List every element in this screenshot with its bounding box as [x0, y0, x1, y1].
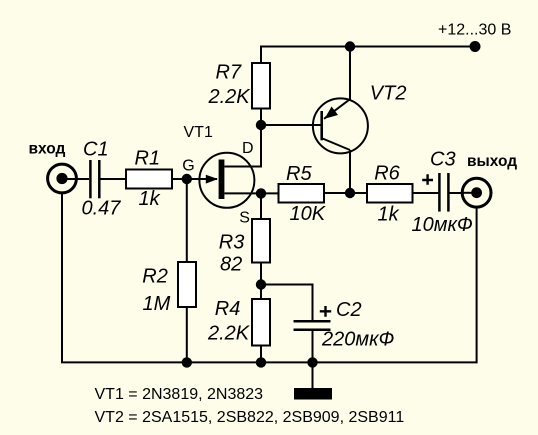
- node G: [182, 158, 195, 185]
- wire source junction to R5: [261, 192, 279, 194]
- wire R6 to C3: [413, 192, 439, 194]
- svg-text:G: G: [182, 158, 194, 175]
- capacitor C2: [294, 299, 395, 351]
- junction collector/R5/R6: [345, 188, 355, 198]
- svg-text:+12...30 В: +12...30 В: [438, 22, 511, 39]
- svg-text:2.2K: 2.2K: [207, 322, 251, 344]
- svg-text:220мкФ: 220мкФ: [321, 329, 395, 351]
- wire node G to VT1 gate: [187, 178, 217, 180]
- wire junction to C2 top: [261, 285, 313, 321]
- wire junction to R4: [260, 285, 262, 300]
- svg-text:R4: R4: [215, 298, 241, 320]
- resistor R7: [208, 62, 271, 109]
- wire junction to R6: [350, 192, 367, 194]
- resistor R5: [279, 163, 327, 225]
- junction R2 bottom rail: [182, 357, 192, 367]
- svg-text:1M: 1M: [143, 293, 171, 315]
- wire node G down to R2: [186, 179, 188, 262]
- svg-text:10K: 10K: [290, 203, 327, 225]
- wire R2 to bottom rail: [186, 307, 188, 362]
- svg-text:R2: R2: [142, 266, 168, 288]
- wire R5 to junction: [324, 192, 350, 194]
- svg-text:VT1 = 2N3819, 2N3823: VT1 = 2N3819, 2N3823: [95, 386, 264, 403]
- wire ground stub: [312, 362, 314, 388]
- svg-text:выход: выход: [467, 153, 517, 170]
- transistor VT1 (JFET): [184, 124, 255, 226]
- svg-text:R1: R1: [135, 148, 161, 170]
- resistor R4: [207, 298, 270, 346]
- junction under R7: [256, 120, 266, 130]
- capacitor C3: [412, 149, 473, 237]
- wire C2 bottom to rail: [312, 331, 314, 362]
- svg-text:S: S: [239, 209, 250, 226]
- svg-text:C1: C1: [83, 139, 109, 161]
- junction R4 bottom rail: [256, 357, 266, 367]
- svg-text:C3: C3: [430, 149, 456, 171]
- wire top rail +V: [261, 47, 475, 64]
- transistor VT2 (PNP): [313, 83, 407, 154]
- svg-text:R6: R6: [374, 162, 400, 184]
- svg-text:VT2: VT2: [370, 83, 407, 105]
- wire R4 to bottom rail: [260, 346, 262, 363]
- wire source junction down to R3: [260, 193, 262, 219]
- wire R1 to node G: [172, 178, 187, 180]
- svg-text:1k: 1k: [378, 203, 400, 225]
- resistor R6: [367, 162, 413, 225]
- wire C3 to output: [450, 192, 477, 194]
- svg-text:VT2 = 2SA1515, 2SB822, 2SB909,: VT2 = 2SA1515, 2SB822, 2SB909, 2SB911: [95, 409, 405, 426]
- wire bottom rail: [62, 193, 477, 362]
- svg-text:10мкФ: 10мкФ: [412, 214, 473, 236]
- junction ground on rail: [307, 357, 317, 367]
- wire VT1 source to junction: [225, 192, 262, 194]
- svg-text:R5: R5: [286, 163, 312, 185]
- wire VT2 collector down: [349, 150, 351, 193]
- svg-text:82: 82: [220, 254, 242, 276]
- capacitor C1: [90, 160, 99, 198]
- output connector выход: [462, 153, 517, 207]
- resistor R2: [142, 262, 196, 315]
- ground: [294, 388, 332, 400]
- svg-text:R7: R7: [216, 62, 242, 84]
- svg-text:2.2K: 2.2K: [208, 86, 252, 108]
- svg-text:D: D: [242, 140, 254, 157]
- resistor R3: [219, 219, 270, 276]
- resistor R1: [126, 148, 172, 211]
- power terminal +12...30V: [438, 22, 511, 53]
- wire VT1 drain to junction under R7: [225, 125, 262, 167]
- junction VT1 source: [256, 188, 266, 198]
- wire C1 to R1: [100, 178, 126, 180]
- svg-text:0.47: 0.47: [82, 198, 122, 220]
- junction R3/R4/C2: [256, 279, 266, 289]
- svg-text:R3: R3: [219, 231, 245, 253]
- wire R7 bottom to junction: [260, 109, 262, 126]
- wire R3 to junction node: [260, 263, 262, 285]
- svg-text:1k: 1k: [139, 188, 161, 210]
- svg-text:C2: C2: [336, 299, 362, 321]
- wire junction to VT2 base: [261, 124, 321, 126]
- wire VT2 emitter up to rail: [349, 47, 351, 100]
- svg-text:вход: вход: [29, 141, 66, 158]
- input connector вход: [29, 141, 77, 193]
- svg-text:VT1: VT1: [184, 124, 213, 141]
- wire input to C1: [62, 178, 89, 180]
- junction VT2 emitter on rail: [345, 41, 355, 51]
